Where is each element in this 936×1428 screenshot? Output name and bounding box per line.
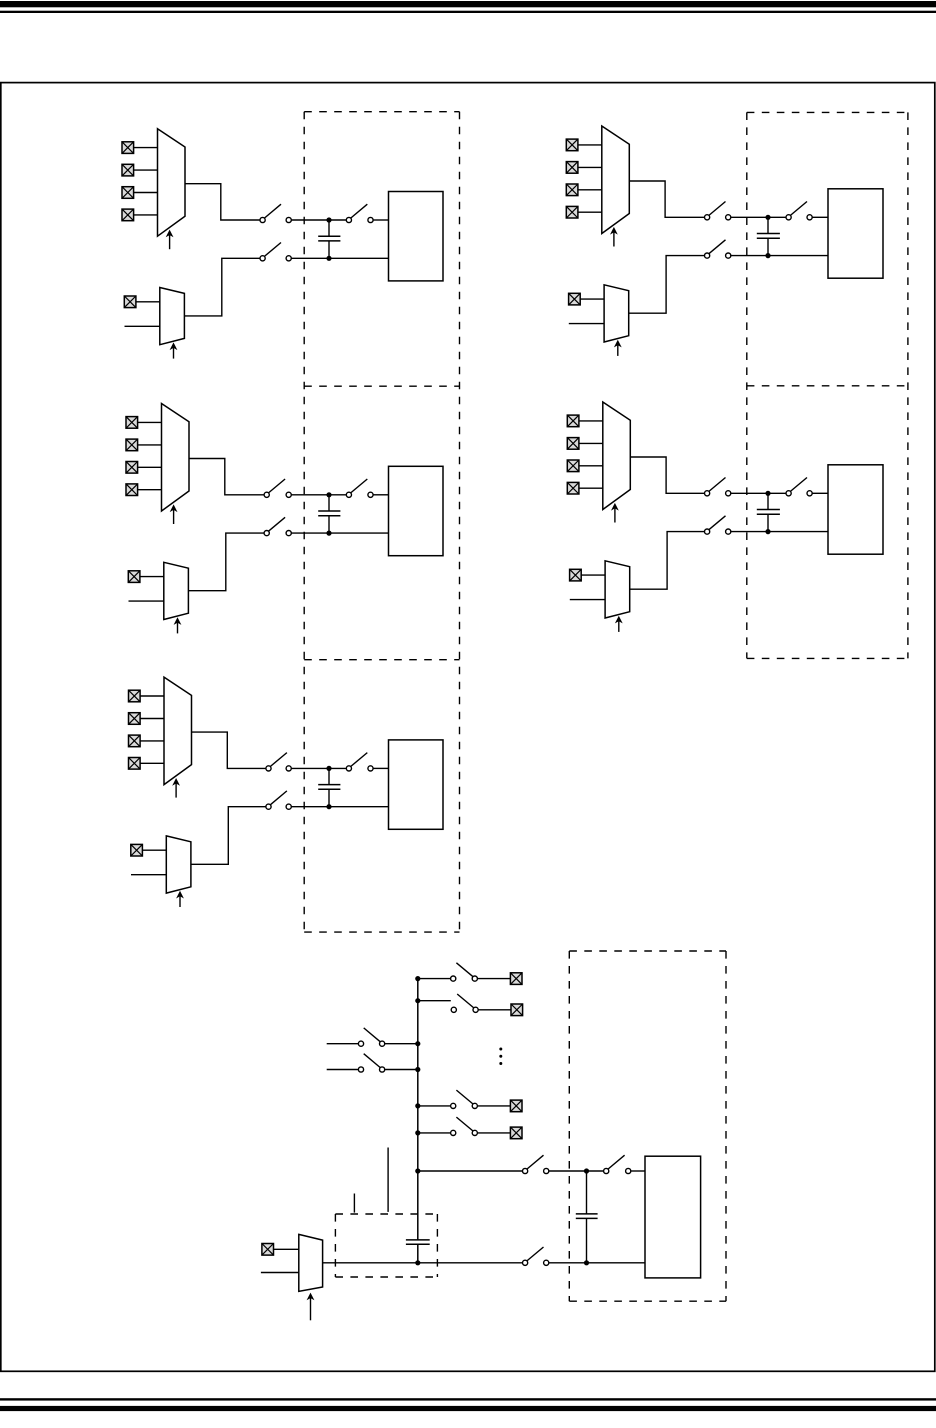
ch2 reference mux xyxy=(604,285,629,342)
ch3 acquisition block xyxy=(389,466,444,555)
ellipsis: more channels xyxy=(499,1048,502,1066)
node: bus bottom junction xyxy=(415,1260,420,1265)
ch2 input mux output wire xyxy=(629,181,704,217)
ch4 input pad 1 xyxy=(567,415,579,427)
ch2 input pad 3 xyxy=(566,184,578,196)
ch1 analog input mux xyxy=(158,129,186,237)
ch2 wire: switch to hold-cap node xyxy=(731,216,786,218)
ch3 reference pad wire xyxy=(140,576,164,578)
ch5 input pad 4 xyxy=(129,758,141,770)
ch4 input mux select arrow xyxy=(611,503,619,523)
ADC block xyxy=(645,1156,701,1278)
left source 1 feed wire xyxy=(327,1043,359,1045)
ch4 lower sampling switch (row 2) xyxy=(705,516,731,534)
ch2 input pad 1 xyxy=(566,139,578,151)
bus tap C wire to pad xyxy=(477,1105,510,1107)
bottom reference mux xyxy=(299,1234,323,1291)
ch1 node: hold-cap bottom junction xyxy=(326,256,331,261)
ch4 node: hold-cap top junction xyxy=(765,491,770,496)
ch3 analog input mux xyxy=(162,404,190,512)
ch2 reference pad wire xyxy=(580,298,604,300)
ADC sample & hold capacitor xyxy=(576,1171,598,1263)
header thin rule xyxy=(0,11,936,13)
ch3 input pad 1 xyxy=(126,417,138,429)
bus tap A bus stub wire xyxy=(418,978,451,980)
ch4 reference input wire xyxy=(570,599,605,601)
ch1 input pad 2 xyxy=(122,164,134,176)
ch3 wire: inner switch to block xyxy=(373,494,388,496)
bus tap A wire to pad xyxy=(477,978,510,980)
ch2 node: hold-cap top junction xyxy=(765,215,770,220)
ch5 node: hold-cap bottom junction xyxy=(326,804,331,809)
ch3 input pad 3 wire xyxy=(138,466,162,468)
ch3 input pad 3 xyxy=(126,462,138,474)
ch4 reference pad xyxy=(570,569,582,581)
ch5 input mux select arrow xyxy=(172,778,180,798)
ch1 reference mux select arrow xyxy=(170,342,178,358)
ch2 node: hold-cap bottom junction xyxy=(765,253,770,258)
ch2 inner switch (row 1) xyxy=(786,202,812,220)
ch1 wire: inner switch to block xyxy=(373,219,388,221)
ch1 hold capacitor xyxy=(318,220,340,258)
node: ADC cap top junction xyxy=(584,1168,589,1173)
ch1 reference pad wire xyxy=(136,301,160,303)
ch1 reference mux output wire xyxy=(184,258,260,316)
ch1 wire: switch to hold-cap node xyxy=(291,219,346,221)
ch1 reference mux xyxy=(160,288,185,345)
ch5 wire: row 2 to block xyxy=(291,806,388,808)
footer thin rule xyxy=(0,1398,936,1400)
ch1 outer sampling switch (row 1) xyxy=(260,204,291,222)
ch5 inner switch (row 1) xyxy=(346,753,373,771)
ch3 input mux select arrow xyxy=(170,504,178,524)
left source 2 switch xyxy=(358,1054,384,1072)
node: bus junction left source 2 xyxy=(415,1067,420,1072)
bottom reference rail wire xyxy=(323,1262,523,1264)
ch3 hold capacitor xyxy=(318,495,340,533)
bus tap C bus stub wire xyxy=(418,1105,451,1107)
ch5 node: hold-cap top junction xyxy=(326,766,331,771)
left column dashed module boundary xyxy=(304,112,459,932)
bottom reference mux select arrow xyxy=(307,1293,315,1321)
ch3 outer sampling switch (row 1) xyxy=(264,479,291,497)
ch4 reference mux output wire xyxy=(630,532,705,590)
ch1 reference pad xyxy=(124,296,136,308)
node: bus junction bus tap A xyxy=(415,976,420,981)
ch5 reference mux select arrow xyxy=(176,891,184,907)
ch2 reference input wire xyxy=(569,323,604,325)
ch1 input pad 3 xyxy=(122,187,134,199)
ch4 wire: inner switch to block xyxy=(812,492,828,494)
ch3 wire: row 2 to block xyxy=(291,532,388,534)
ch4 reference mux xyxy=(605,561,630,618)
node: ADC cap bottom junction xyxy=(584,1260,589,1265)
ch5 input pad 2 xyxy=(129,713,141,725)
ch2 input pad 4 wire xyxy=(578,211,602,213)
ch5 input pad 3 xyxy=(129,735,141,747)
ch5 analog input mux xyxy=(164,677,192,785)
left source 2 feed wire xyxy=(327,1069,359,1071)
ch4 node: hold-cap bottom junction xyxy=(765,529,770,534)
ch2 input pad 2 wire xyxy=(578,166,602,168)
ch5 reference pad wire xyxy=(142,849,166,851)
ch2 input pad 4 xyxy=(566,206,578,218)
ch4 hold capacitor xyxy=(757,493,780,531)
ch2 input pad 1 wire xyxy=(578,144,602,146)
node: bus junction bus tap C xyxy=(415,1103,420,1108)
ch2 reference mux select arrow xyxy=(614,340,622,356)
ch5 reference input wire xyxy=(131,874,166,876)
node: bus junction bus tap D xyxy=(415,1130,420,1135)
ch1 input pad 1 xyxy=(122,142,134,154)
ch4 input pad 1 wire xyxy=(579,420,603,422)
bus tap B wire to pad xyxy=(478,1009,511,1011)
bus tap A pad switch xyxy=(451,963,478,981)
ch3 input pad 2 wire xyxy=(138,444,162,446)
ch4 analog input mux xyxy=(603,402,631,510)
right column dashed module boundary xyxy=(747,112,908,658)
ch2 lower sampling switch (row 2) xyxy=(705,240,731,258)
ch4 outer sampling switch (row 1) xyxy=(705,478,731,496)
ch1 lower sampling switch (row 2) xyxy=(260,243,291,261)
ch3 node: hold-cap top junction xyxy=(326,492,331,497)
ch4 input pad 2 xyxy=(567,438,579,450)
ch2 wire: row 2 to block xyxy=(731,255,828,257)
bus tap B pad xyxy=(511,1004,523,1016)
bus tap B pad switch xyxy=(451,994,478,1012)
ch3 reference mux xyxy=(164,562,189,619)
bottom rail switch xyxy=(523,1247,549,1265)
ch1 input pad 1 wire xyxy=(134,147,158,149)
ch2 input mux select arrow xyxy=(610,227,618,247)
bottom reference pad xyxy=(262,1244,274,1256)
bus tap C pad xyxy=(510,1100,522,1112)
left source 2 wire to bus xyxy=(385,1069,418,1071)
ch5 reference mux xyxy=(166,836,191,893)
stub wire 1 (guard) xyxy=(353,1194,355,1213)
ch5 input pad 2 wire xyxy=(140,718,164,720)
ch5 input pad 1 xyxy=(129,690,141,702)
ch2 outer sampling switch (row 1) xyxy=(705,202,731,220)
ch2 reference pad xyxy=(569,293,581,305)
bus tap C pad switch xyxy=(451,1090,478,1108)
ch4 wire: row 2 to block xyxy=(731,531,828,533)
ch1 input pad 3 wire xyxy=(134,192,158,194)
ch1 input pad 4 xyxy=(122,209,134,221)
ch1 node: hold-cap top junction xyxy=(326,217,331,222)
ch5 input pad 3 wire xyxy=(140,740,164,742)
ch2 acquisition block xyxy=(828,189,883,278)
sample switch 2 xyxy=(604,1155,631,1173)
ch2 input pad 2 xyxy=(566,162,578,174)
sample row wire from bus xyxy=(418,1170,523,1172)
ch1 acquisition block xyxy=(389,192,444,281)
internal cap dashed boundary xyxy=(335,1214,437,1277)
bus tap B bus stub wire xyxy=(418,1000,451,1002)
ch4 input pad 3 wire xyxy=(579,465,603,467)
ch1 wire: row 2 to block xyxy=(291,257,388,259)
stub wire 2 (guard) xyxy=(387,1148,389,1212)
ch5 input pad 4 wire xyxy=(140,762,164,764)
left source 1 switch xyxy=(358,1028,384,1046)
ch4 acquisition block xyxy=(828,465,883,554)
ch5 outer sampling switch (row 1) xyxy=(266,753,291,771)
bus tap A pad xyxy=(510,973,522,985)
ch4 input pad 4 wire xyxy=(579,487,603,489)
ch1 input pad 2 wire xyxy=(134,169,158,171)
wire: bottom switch to ADC block xyxy=(549,1262,645,1264)
ch3 wire: switch to hold-cap node xyxy=(291,494,346,496)
internal bus capacitor plates xyxy=(406,1240,430,1244)
footer thick bar xyxy=(0,1406,936,1411)
ch2 reference mux output wire xyxy=(629,256,705,314)
ch3 input pad 4 wire xyxy=(138,489,162,491)
bottom reference pad wire xyxy=(274,1248,299,1250)
wire: switch 2 to ADC block xyxy=(631,1170,645,1172)
sample switch 1 xyxy=(523,1155,549,1173)
node: bus junction bus tap B xyxy=(415,998,420,1003)
ch5 wire: inner switch to block xyxy=(373,767,388,769)
ch5 acquisition block xyxy=(389,740,444,829)
ch1 inner switch (row 1) xyxy=(346,204,373,222)
ch2 analog input mux xyxy=(602,126,630,234)
bus tap D pad xyxy=(510,1127,522,1139)
ch2 input pad 3 wire xyxy=(578,189,602,191)
ch4 inner switch (row 1) xyxy=(786,478,812,496)
ch2 wire: inner switch to block xyxy=(812,216,828,218)
ch5 reference pad xyxy=(131,844,143,856)
ch3 lower sampling switch (row 2) xyxy=(264,517,291,535)
ch1 reference input wire xyxy=(125,325,160,327)
ch3 input mux output wire xyxy=(189,459,264,495)
wire: sample switch to ADC cap node xyxy=(549,1170,604,1172)
ch3 reference pad xyxy=(128,571,140,583)
ch3 reference mux output wire xyxy=(188,533,264,591)
ch4 input pad 3 xyxy=(567,460,579,472)
ch3 reference mux select arrow xyxy=(174,617,182,633)
header thick bar xyxy=(0,1,936,7)
ch5 hold capacitor xyxy=(318,768,340,806)
ch5 wire: switch to hold-cap node xyxy=(291,767,346,769)
ch3 node: hold-cap bottom junction xyxy=(326,531,331,536)
ch3 reference input wire xyxy=(129,600,164,602)
ch3 input pad 2 xyxy=(126,439,138,451)
ch3 input pad 1 wire xyxy=(138,421,162,423)
ch4 wire: switch to hold-cap node xyxy=(731,492,786,494)
ch4 input mux output wire xyxy=(630,457,704,493)
ch4 reference pad wire xyxy=(581,574,605,576)
ch2 hold capacitor xyxy=(757,217,780,255)
ADC shared bus (vertical) xyxy=(417,978,419,1263)
ch1 input pad 4 wire xyxy=(134,214,158,216)
ch3 inner switch (row 1) xyxy=(346,479,373,497)
bus tap D pad switch xyxy=(451,1117,478,1135)
node: bus junction sample row xyxy=(415,1168,420,1173)
ch5 reference mux output wire xyxy=(191,807,266,865)
ch4 input pad 2 wire xyxy=(579,442,603,444)
ch4 input pad 4 xyxy=(567,482,579,494)
node: bus junction left source 1 xyxy=(415,1041,420,1046)
left source 1 wire to bus xyxy=(385,1043,418,1045)
ch5 input mux output wire xyxy=(192,732,266,768)
bus tap D wire to pad xyxy=(477,1132,510,1134)
ch4 reference mux select arrow xyxy=(615,616,623,632)
bottom reference input wire xyxy=(261,1272,299,1274)
bus tap D bus stub wire xyxy=(418,1132,451,1134)
ch5 input pad 1 wire xyxy=(140,695,164,697)
ADC module dashed boundary xyxy=(569,951,726,1301)
ch5 lower sampling switch (row 2) xyxy=(266,791,291,809)
ch3 input pad 4 xyxy=(126,484,138,496)
ch1 input mux output wire xyxy=(185,184,260,220)
ch1 input mux select arrow xyxy=(166,230,174,250)
